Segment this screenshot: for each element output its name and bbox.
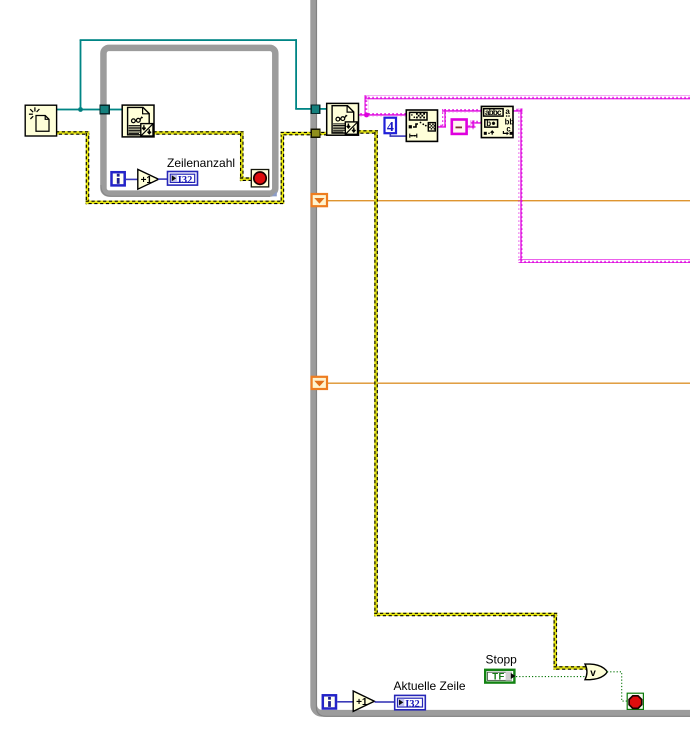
wire: int32 i to increment (W1) <box>126 179 138 181</box>
wire: boolean from Stopp to OR gate <box>516 676 586 678</box>
wire: error cluster Read1 to loop condition terminal <box>154 131 252 181</box>
indicator: I32 Aktuelle Zeile <box>395 695 426 710</box>
function: Or gate <box>585 664 607 680</box>
wire: teal refnum branch up and over W1 to W2 tunnel <box>80 39 313 110</box>
while loop W1 (line counting loop) border <box>101 48 275 196</box>
label: Aktuelle Zeile <box>394 679 466 693</box>
svg-text:b: b <box>486 119 491 128</box>
svg-text:I32: I32 <box>405 699 420 710</box>
svg-text:a: a <box>505 107 510 116</box>
wire: teal refnum from open-file to W1 tunnel <box>56 109 100 111</box>
wire: teal refnum tunnel2 to Read Text File 2 <box>318 108 328 110</box>
wire: int32 increment to I32 indicator (W2) <box>375 701 395 703</box>
tunnel: teal on W1 left border <box>100 105 109 113</box>
svg-text:I32: I32 <box>178 175 193 186</box>
label: Zeilenanzahl <box>167 156 235 170</box>
svg-text:4: 4 <box>387 120 394 135</box>
tunnel: olive error on W2 left border <box>311 129 320 137</box>
svg-text:Zeilenanzahl: Zeilenanzahl <box>167 156 235 170</box>
wire: int32 increment to I32 indicator (W1) <box>158 178 168 180</box>
wire: teal refnum tunnel1 to Read Text File 1 <box>108 109 123 111</box>
constant: numeric 4 <box>385 118 397 135</box>
node: teal wire junction <box>78 107 83 112</box>
svg-text:abbc: abbc <box>485 108 502 117</box>
wire: string before-substring output of Match Pattern to right <box>513 109 690 264</box>
wire: error cluster Read2 down to OR gate <box>358 130 587 670</box>
shift register 1 (left, down arrow) <box>312 194 327 206</box>
tunnel: teal on W2 left border <box>311 105 319 114</box>
function: Read from Text File (2) <box>327 103 359 135</box>
wire: int32 i to increment (W2) <box>337 701 353 703</box>
node: string wire junction <box>364 113 369 118</box>
svg-text:+1: +1 <box>141 175 153 186</box>
function: Match Pattern <box>481 106 514 137</box>
wire: orange DBL from shift register 2 <box>326 383 690 384</box>
iteration terminal i (W2) <box>323 695 336 708</box>
while loop W2 (main outer loop) border <box>314 0 690 716</box>
svg-text:Stopp: Stopp <box>486 652 518 666</box>
loop condition terminal W1 (stop if true, error wired) <box>251 170 268 187</box>
wire: boolean from OR gate to W2 condition terminal <box>607 672 627 701</box>
function: increment +1 (W2) <box>353 691 374 711</box>
wire: string from constant to Match Pattern regex input <box>467 120 482 129</box>
function: increment +1 (W1) <box>138 169 159 189</box>
wire: string from Index Array to Match Pattern <box>437 109 482 128</box>
loop condition terminal W2 (stop if true, boolean wired) <box>627 693 643 709</box>
function: Index Array <box>406 110 437 141</box>
function: Read from Text File (1) <box>122 105 154 137</box>
svg-text:+1: +1 <box>356 697 368 708</box>
W1 grow handle (corner) <box>272 191 277 196</box>
wire: int32 from constant 4 to Index Array <box>390 133 407 137</box>
boolean control: Stopp (TF terminal) <box>485 652 517 682</box>
svg-text:Aktuelle Zeile: Aktuelle Zeile <box>394 679 466 693</box>
shift register 2 (left, down arrow) <box>312 377 327 389</box>
function: Open/Create/Replace File <box>25 105 56 136</box>
wire: orange DBL from shift register 1 <box>326 200 690 201</box>
wire: string from Read2 with junction <box>358 95 690 117</box>
svg-text:TF: TF <box>492 672 504 683</box>
wire: error cluster open-file down and under W1 to W2 tunnel <box>56 131 327 204</box>
svg-text:v: v <box>590 668 596 679</box>
constant: string (match pattern) <box>452 120 467 134</box>
indicator: I32 Zeilenanzahl <box>168 172 198 187</box>
iteration terminal i (W1) <box>112 172 125 185</box>
